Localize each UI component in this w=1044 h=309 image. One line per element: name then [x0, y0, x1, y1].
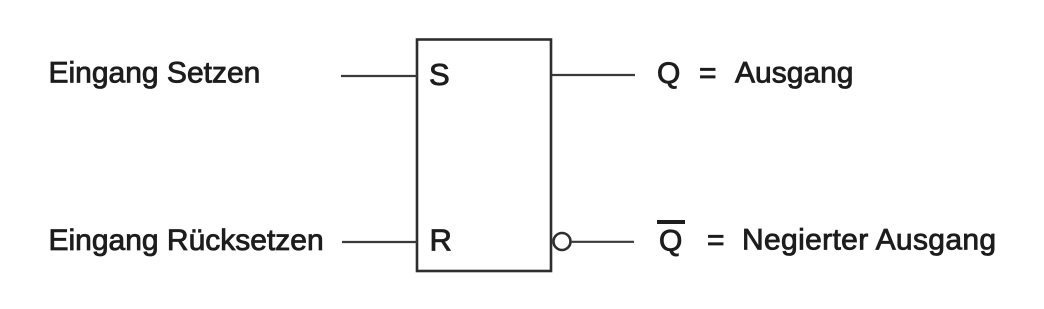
svg-text:Negierter Ausgang: Negierter Ausgang [742, 224, 996, 257]
svg-text:Eingang Rücksetzen: Eingang Rücksetzen [49, 224, 324, 257]
svg-text:Q: Q [659, 225, 682, 258]
svg-text:Ausgang: Ausgang [735, 57, 853, 90]
wire Q-bar output [571, 241, 634, 243]
wire Q output [552, 74, 635, 76]
svg-text:Q: Q [657, 57, 680, 90]
svg-text:=: = [699, 57, 717, 90]
inversion bubble on Q-bar output [554, 233, 571, 250]
svg-text:S: S [429, 57, 450, 92]
svg-text:Eingang Setzen: Eingang Setzen [49, 57, 261, 90]
flip-flop body U1 [417, 40, 551, 272]
wire R input [342, 241, 417, 243]
svg-text:=: = [707, 224, 725, 257]
overline of Q-bar [657, 220, 685, 224]
wire S input [341, 75, 417, 77]
svg-text:R: R [430, 222, 452, 257]
